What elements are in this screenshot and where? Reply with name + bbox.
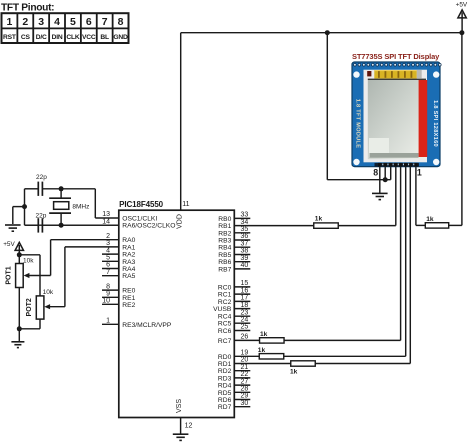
svg-text:16: 16 bbox=[241, 287, 249, 294]
svg-text:25: 25 bbox=[241, 324, 249, 331]
svg-text:3: 3 bbox=[106, 240, 110, 247]
svg-text:28: 28 bbox=[241, 386, 249, 393]
svg-text:RST: RST bbox=[3, 34, 17, 41]
svg-text:6: 6 bbox=[106, 262, 110, 269]
svg-text:CS: CS bbox=[21, 34, 31, 41]
svg-text:8: 8 bbox=[373, 167, 378, 177]
svg-text:+5V: +5V bbox=[456, 1, 468, 8]
svg-text:RE2: RE2 bbox=[122, 302, 135, 309]
svg-text:1: 1 bbox=[106, 318, 110, 325]
svg-text:VSS: VSS bbox=[176, 399, 183, 413]
svg-text:38: 38 bbox=[241, 248, 249, 255]
svg-text:RA1: RA1 bbox=[122, 244, 135, 251]
svg-text:34: 34 bbox=[241, 219, 249, 226]
svg-text:RC4: RC4 bbox=[218, 314, 232, 321]
svg-text:+5V: +5V bbox=[3, 241, 15, 248]
svg-text:RC0: RC0 bbox=[218, 284, 232, 291]
svg-text:RD1: RD1 bbox=[218, 361, 232, 368]
svg-text:1: 1 bbox=[417, 167, 422, 177]
svg-text:22p: 22p bbox=[36, 174, 47, 181]
svg-text:1k: 1k bbox=[315, 216, 323, 223]
svg-text:POT2: POT2 bbox=[26, 298, 33, 316]
svg-text:2: 2 bbox=[106, 233, 110, 240]
svg-text:RD0: RD0 bbox=[218, 354, 232, 361]
svg-text:10k: 10k bbox=[43, 289, 54, 296]
svg-text:10k: 10k bbox=[23, 258, 34, 265]
svg-text:RB5: RB5 bbox=[218, 252, 231, 259]
svg-text:7: 7 bbox=[102, 16, 108, 28]
svg-text:BL: BL bbox=[100, 34, 109, 41]
svg-text:RD6: RD6 bbox=[218, 397, 232, 404]
svg-text:RD5: RD5 bbox=[218, 390, 232, 397]
svg-text:RC7: RC7 bbox=[218, 338, 232, 345]
svg-text:RA2: RA2 bbox=[122, 252, 135, 259]
svg-text:11: 11 bbox=[182, 201, 189, 208]
svg-text:ST7735S SPI TFT Display: ST7735S SPI TFT Display bbox=[352, 52, 440, 61]
svg-text:12: 12 bbox=[185, 423, 193, 430]
svg-text:RC6: RC6 bbox=[218, 328, 232, 335]
svg-text:1k: 1k bbox=[258, 347, 266, 354]
svg-text:RE3/MCLR/VPP: RE3/MCLR/VPP bbox=[122, 322, 172, 329]
svg-text:RB1: RB1 bbox=[218, 223, 231, 230]
svg-text:8: 8 bbox=[106, 283, 110, 290]
svg-text:RD2: RD2 bbox=[218, 368, 232, 375]
svg-text:14: 14 bbox=[102, 218, 110, 225]
svg-text:21: 21 bbox=[241, 364, 249, 371]
svg-text:4: 4 bbox=[54, 16, 60, 28]
svg-text:VDD: VDD bbox=[177, 214, 184, 229]
svg-text:10: 10 bbox=[102, 298, 110, 305]
svg-text:30: 30 bbox=[241, 400, 249, 407]
svg-text:DIN: DIN bbox=[52, 34, 63, 41]
svg-text:VCC: VCC bbox=[82, 34, 96, 41]
svg-text:POT1: POT1 bbox=[6, 266, 13, 284]
svg-text:RB4: RB4 bbox=[218, 245, 231, 252]
svg-text:RA0: RA0 bbox=[122, 237, 135, 244]
svg-text:5: 5 bbox=[106, 255, 110, 262]
svg-text:36: 36 bbox=[241, 233, 249, 240]
svg-text:4: 4 bbox=[106, 247, 110, 254]
svg-text:TFT Pinout:: TFT Pinout: bbox=[1, 3, 54, 14]
svg-text:CLK: CLK bbox=[66, 34, 80, 41]
svg-text:17: 17 bbox=[241, 295, 249, 302]
svg-text:RB6: RB6 bbox=[218, 259, 231, 266]
svg-text:22: 22 bbox=[241, 371, 249, 378]
svg-text:RB3: RB3 bbox=[218, 238, 231, 245]
svg-text:1k: 1k bbox=[260, 331, 268, 338]
svg-text:RD4: RD4 bbox=[218, 383, 232, 390]
svg-text:RB0: RB0 bbox=[218, 216, 231, 223]
svg-text:8MHz: 8MHz bbox=[72, 203, 89, 210]
svg-text:RE1: RE1 bbox=[122, 295, 135, 302]
svg-text:40: 40 bbox=[241, 262, 249, 269]
svg-text:RA3: RA3 bbox=[122, 259, 135, 266]
svg-text:23: 23 bbox=[241, 309, 249, 316]
svg-text:1k: 1k bbox=[290, 368, 298, 375]
svg-text:7: 7 bbox=[106, 269, 110, 276]
svg-text:OSC1/CLKI: OSC1/CLKI bbox=[122, 216, 157, 223]
svg-text:RC5: RC5 bbox=[218, 321, 232, 328]
svg-text:RE0: RE0 bbox=[122, 288, 135, 295]
svg-text:18: 18 bbox=[241, 302, 249, 309]
svg-text:1.8 SPI 128X160: 1.8 SPI 128X160 bbox=[432, 100, 438, 147]
svg-text:RB7: RB7 bbox=[218, 266, 231, 273]
svg-text:1: 1 bbox=[7, 16, 13, 28]
svg-text:RB2: RB2 bbox=[218, 230, 231, 237]
svg-text:3: 3 bbox=[38, 16, 44, 28]
svg-text:RD7: RD7 bbox=[218, 404, 232, 411]
svg-text:22p: 22p bbox=[36, 212, 47, 219]
svg-text:20: 20 bbox=[241, 357, 249, 364]
svg-text:VUSB: VUSB bbox=[213, 306, 232, 313]
svg-text:RA6/OSC2/CLKO: RA6/OSC2/CLKO bbox=[122, 223, 175, 230]
svg-text:PIC18F4550: PIC18F4550 bbox=[119, 200, 164, 209]
svg-text:1.8 TFT MODULE: 1.8 TFT MODULE bbox=[355, 99, 361, 149]
svg-text:RC2: RC2 bbox=[218, 299, 232, 306]
svg-text:GND: GND bbox=[113, 34, 128, 41]
svg-text:33: 33 bbox=[241, 212, 249, 219]
svg-text:8: 8 bbox=[118, 16, 124, 28]
svg-text:26: 26 bbox=[241, 334, 249, 341]
svg-text:9: 9 bbox=[106, 291, 110, 298]
svg-text:RA4: RA4 bbox=[122, 266, 135, 273]
svg-text:2: 2 bbox=[22, 16, 28, 28]
svg-text:29: 29 bbox=[241, 393, 249, 400]
svg-text:RA5: RA5 bbox=[122, 273, 135, 280]
svg-text:13: 13 bbox=[102, 211, 110, 218]
svg-text:D/C: D/C bbox=[36, 34, 47, 41]
svg-text:24: 24 bbox=[241, 316, 249, 323]
svg-text:5: 5 bbox=[70, 16, 76, 28]
svg-text:RD3: RD3 bbox=[218, 375, 232, 382]
svg-text:6: 6 bbox=[86, 16, 92, 28]
svg-text:27: 27 bbox=[241, 378, 249, 385]
svg-text:RC1: RC1 bbox=[218, 292, 232, 299]
svg-text:15: 15 bbox=[241, 280, 249, 287]
svg-text:35: 35 bbox=[241, 226, 249, 233]
svg-text:19: 19 bbox=[241, 350, 249, 357]
svg-text:1k: 1k bbox=[426, 216, 434, 223]
svg-text:39: 39 bbox=[241, 255, 249, 262]
svg-text:37: 37 bbox=[241, 240, 249, 247]
